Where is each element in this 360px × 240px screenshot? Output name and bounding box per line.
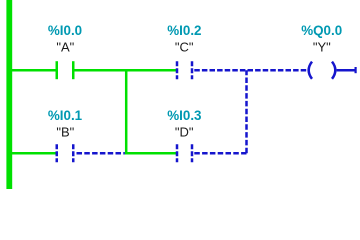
wire rail to contact A — [11, 69, 56, 72]
svg-text:"C": "C" — [175, 40, 194, 55]
svg-text:"D": "D" — [175, 125, 194, 140]
wire junction to contact D (green) — [125, 152, 176, 155]
svg-text:"Y": "Y" — [313, 40, 331, 55]
wire contact B to junction (dashed, no flow) — [77, 152, 125, 155]
contact C (open, no flow) — [176, 61, 179, 79]
contact B (open, no flow) — [56, 144, 59, 162]
junction branch wire (vertical, green) — [125, 69, 128, 153]
coil Y — [309, 62, 312, 79]
wire contact A to contact C — [75, 69, 177, 72]
svg-text:"B": "B" — [56, 125, 74, 140]
svg-text:"A": "A" — [56, 40, 74, 55]
wire rail to contact B — [11, 152, 56, 155]
contact D (open, no flow) — [176, 144, 179, 162]
left power rail — [6, 0, 12, 189]
wire coil to right rail — [337, 69, 355, 72]
right rail tick — [355, 67, 357, 73]
svg-text:%Q0.0: %Q0.0 — [301, 23, 342, 38]
wire contact C to coil Y (dashed, no flow) — [194, 69, 307, 72]
wire contact D to riser (dashed, no flow) — [194, 152, 246, 155]
svg-text:%I0.2: %I0.2 — [167, 23, 201, 38]
svg-text:%I0.0: %I0.0 — [48, 23, 82, 38]
svg-text:%I0.1: %I0.1 — [48, 108, 83, 123]
svg-text:%I0.3: %I0.3 — [167, 108, 201, 123]
contact A (closed, power flow) — [56, 61, 59, 79]
riser wire branch to main rung (dashed, vertical) — [245, 70, 248, 153]
